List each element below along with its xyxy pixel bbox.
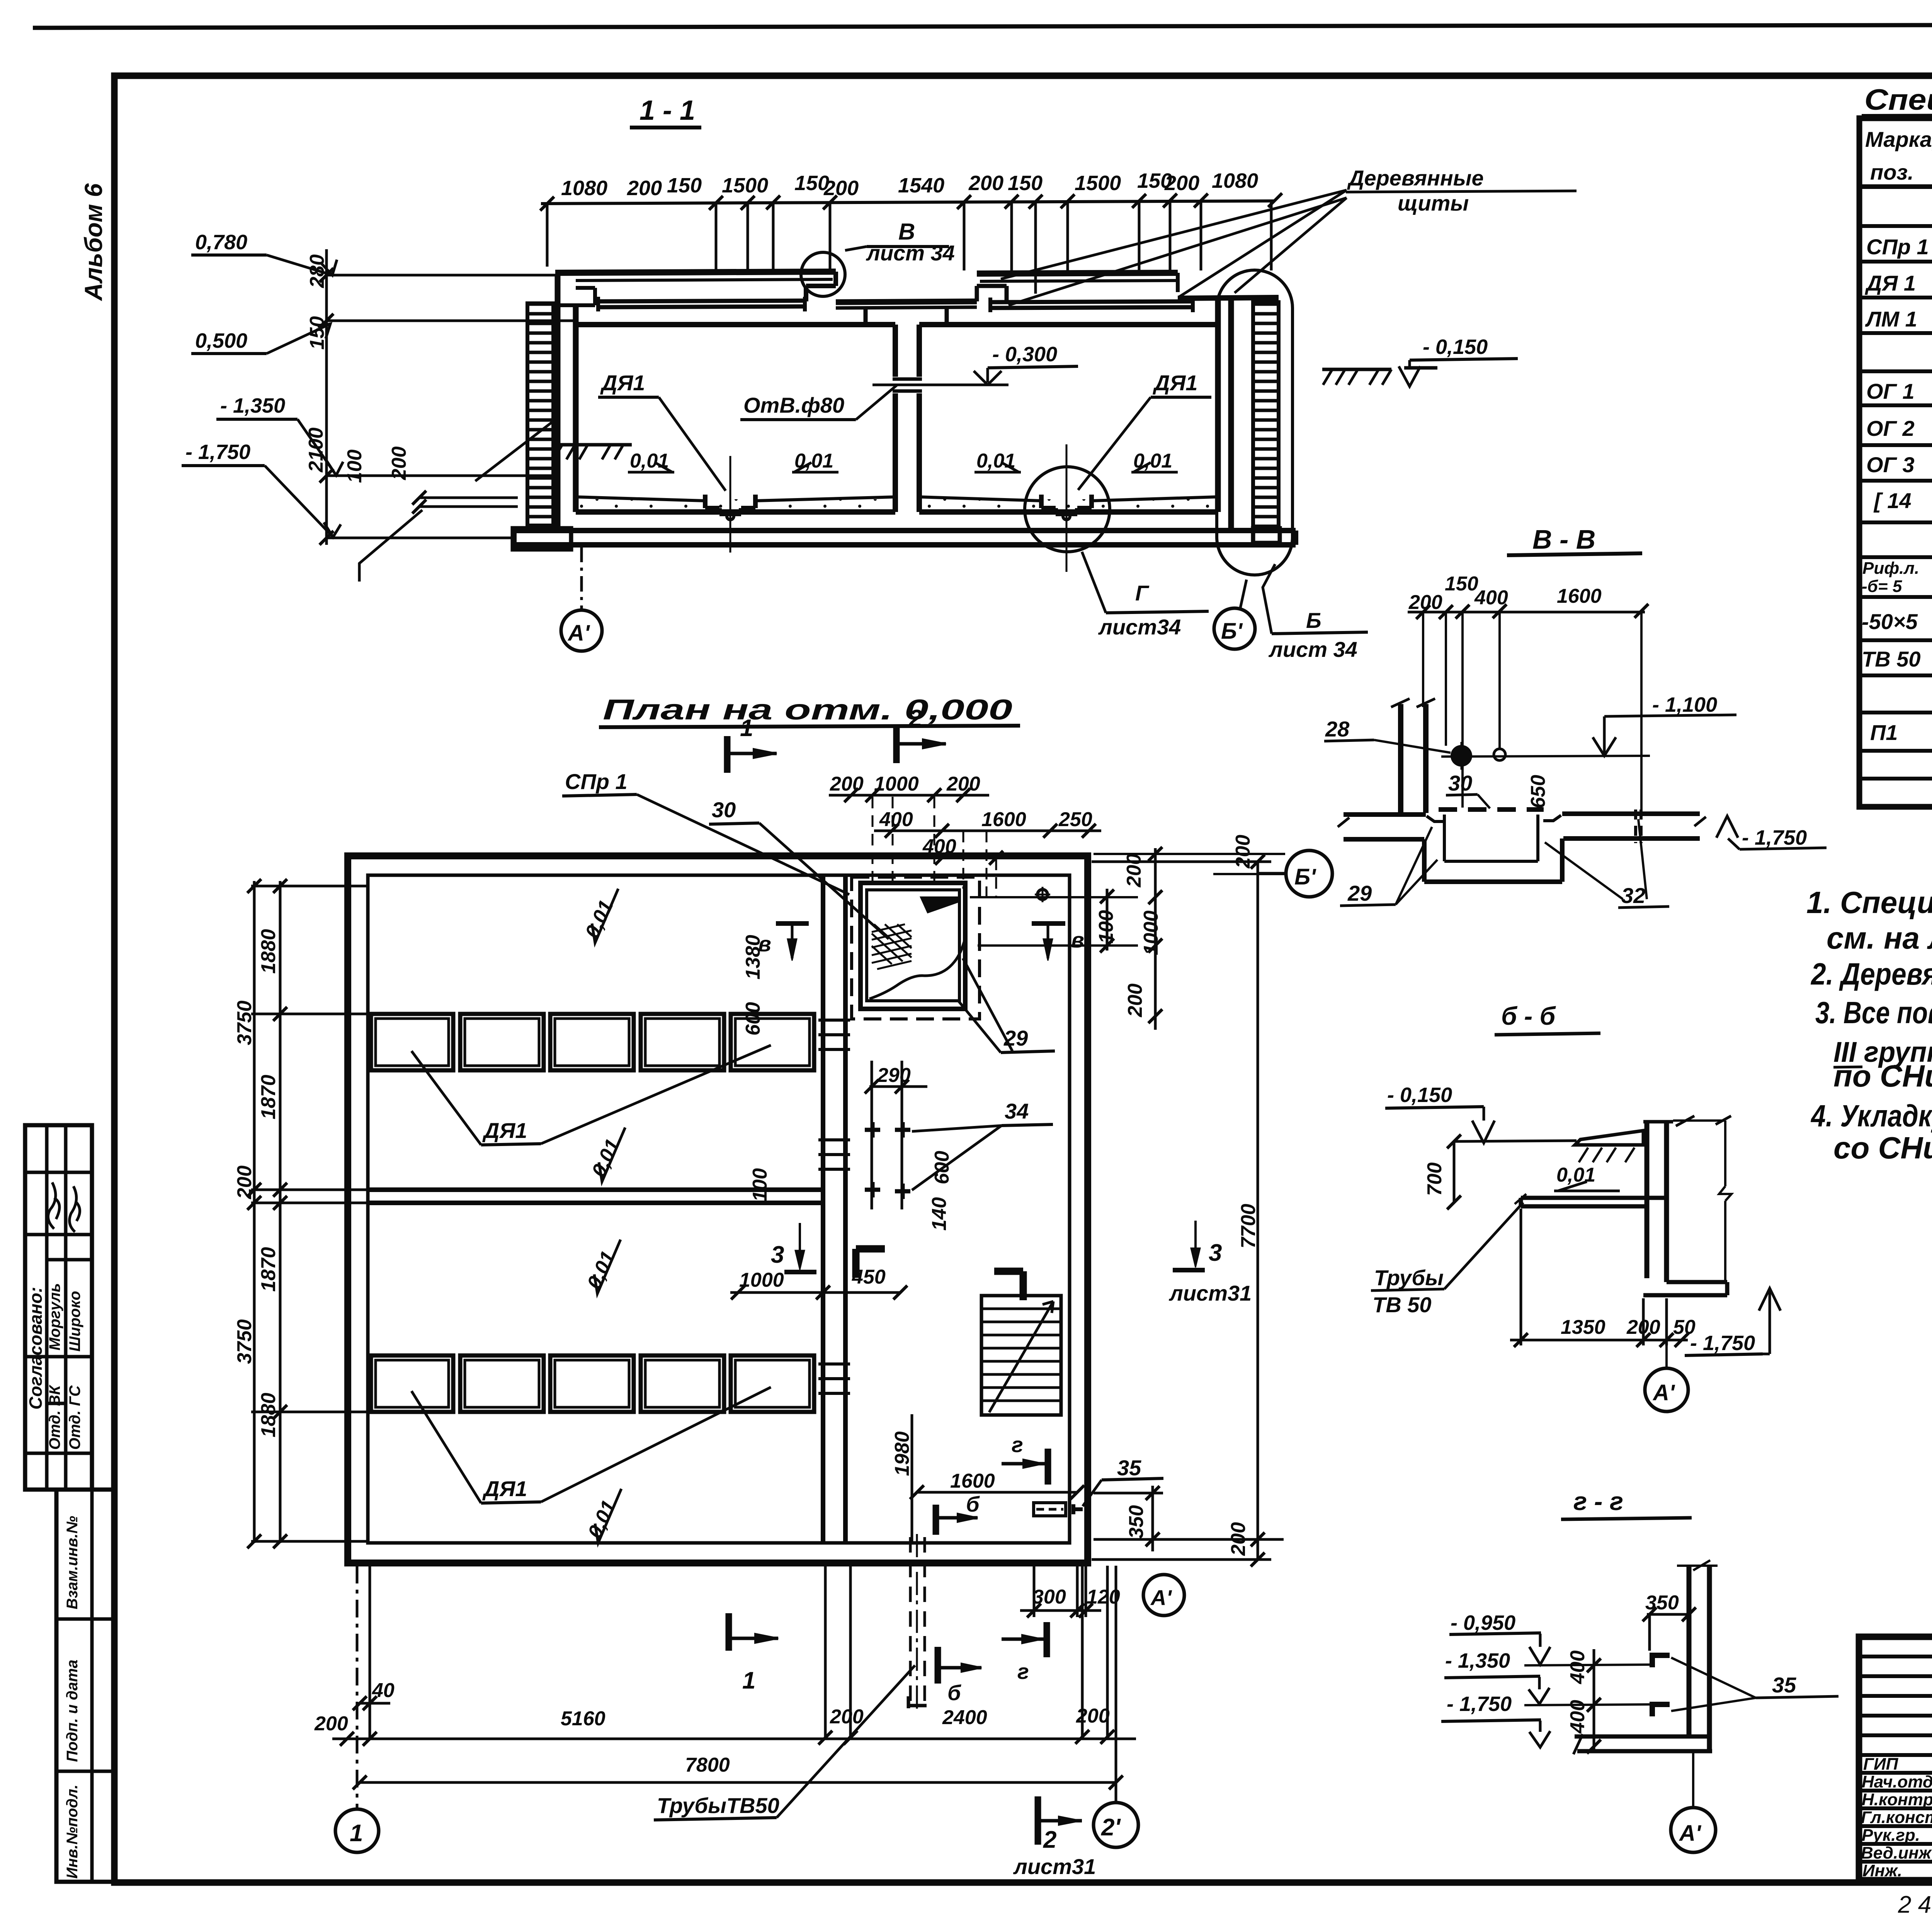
left pedestal (513, 528, 571, 549)
ground line right (1322, 368, 1437, 369)
left horizontal extension lines (328, 275, 576, 538)
svg-text:Вед.инж: Вед.инж (1861, 1844, 1932, 1862)
svg-text:600: 600 (742, 1002, 764, 1036)
embedded angle bracket upper 35 (1650, 1653, 1670, 1667)
hole otv f80 in column (893, 379, 922, 391)
svg-text:200: 200 (830, 1706, 864, 1728)
pit outer square (861, 883, 965, 1009)
slope labels 0.01 (630, 450, 1172, 472)
svg-text:А': А' (1652, 1380, 1675, 1405)
svg-text:0,780: 0,780 (195, 231, 247, 254)
svg-text:План на отм. 0,000: План на отм. 0,000 (603, 694, 1012, 726)
svg-text:1000: 1000 (874, 773, 919, 795)
svg-text:7800: 7800 (685, 1754, 730, 1776)
svg-text:-50×5: -50×5 (1862, 609, 1918, 634)
svg-text:Риф.л.: Риф.л. (1862, 559, 1919, 578)
middle column (895, 325, 919, 512)
svg-text:со СНиП 3.03.01-87.: со СНиП 3.03.01-87. (1833, 1131, 1932, 1165)
spec table header bottom line (1859, 184, 1932, 189)
middle deck side steps (866, 286, 1007, 325)
small circle 30 (1494, 749, 1505, 760)
leaders to wooden shields (1001, 190, 1347, 305)
svg-text:3750: 3750 (233, 1319, 256, 1364)
svg-text:2': 2' (1101, 1814, 1121, 1841)
svg-text:2. Деревянные щиты выполнит: 2. Деревянные щиты выполнить по месту ве… (1810, 957, 1932, 991)
svg-text:ЛМ 1: ЛМ 1 (1865, 307, 1917, 331)
svg-text:ДЯ1: ДЯ1 (482, 1476, 527, 1501)
leader to pedestal (359, 510, 422, 582)
V-V dim texts (1408, 573, 1602, 614)
svg-text:по СНиП 2.03.11-85.: по СНиП 2.03.11-85. (1833, 1059, 1932, 1093)
svg-text:Нач.отд.: Нач.отд. (1862, 1772, 1932, 1791)
svg-text:400: 400 (1566, 1700, 1589, 1734)
35 detail dashed box (1034, 1503, 1066, 1516)
svg-text:ОГ 3: ОГ 3 (1866, 452, 1915, 477)
svg-text:ДЯ 1: ДЯ 1 (1865, 271, 1916, 295)
svg-text:- 0,150: - 0,150 (1423, 335, 1488, 359)
bottom dim texts (314, 1679, 1110, 1735)
lower margin strip (56, 1490, 114, 1882)
svg-text:- 1,100: - 1,100 (1652, 693, 1717, 716)
svg-text:Деревянные: Деревянные (1347, 166, 1484, 190)
V-V pit below slab (1424, 838, 1562, 882)
svg-text:1600: 1600 (950, 1470, 995, 1492)
svg-text:Марка,: Марка, (1865, 127, 1932, 151)
svg-text:1600: 1600 (981, 808, 1026, 831)
svg-text:см. на листе 33.: см. на листе 33. (1827, 921, 1932, 955)
detail circle G around right sump (1025, 467, 1110, 552)
page top edge line (33, 24, 1932, 28)
cut flag 3 right with list31 (1173, 1268, 1205, 1272)
divider wall opening dashes (818, 1020, 850, 1393)
svg-text:лист34: лист34 (1098, 615, 1181, 639)
svg-text:- 1,750: - 1,750 (1447, 1692, 1512, 1716)
slope marks 0.01 rooms (581, 897, 624, 1542)
svg-text:1080: 1080 (1212, 169, 1258, 192)
svg-text:100: 100 (344, 449, 366, 483)
svg-text:250: 250 (1058, 808, 1092, 831)
svg-text:Согласовано:: Согласовано: (26, 1287, 46, 1410)
right ladder band (1253, 302, 1279, 528)
boxes top room (371, 1014, 814, 1070)
embedded angle bracket lower 35 (1650, 1702, 1670, 1716)
svg-text:1540: 1540 (898, 174, 944, 197)
ground line left (556, 443, 632, 447)
level line -1.350 (1524, 1665, 1650, 1665)
svg-text:А': А' (1150, 1585, 1172, 1610)
b-b wall top edge (1643, 1120, 1673, 1124)
svg-text:ГИП: ГИП (1863, 1755, 1899, 1774)
svg-text:280: 280 (306, 254, 328, 288)
svg-text:3: 3 (771, 1242, 784, 1268)
left wall (558, 275, 576, 529)
cut flag 1 bottom (726, 1613, 732, 1651)
svg-text:-б= 5: -б= 5 (1862, 577, 1902, 596)
svg-text:Гл.конст.: Гл.конст. (1861, 1808, 1932, 1827)
svg-text:1870: 1870 (257, 1247, 280, 1292)
approval signatures squiggles (48, 1182, 80, 1232)
svg-text:б: б (966, 1492, 980, 1516)
svg-text:0,01: 0,01 (976, 450, 1015, 472)
dashed formwork line (1439, 807, 1544, 812)
b-b wedge ground slab (1575, 1131, 1643, 1145)
svg-text:лист31: лист31 (1013, 1854, 1096, 1879)
svg-text:Трубы: Трубы (1374, 1265, 1444, 1290)
A' circle b-b (1645, 1368, 1688, 1412)
plan inner wall faces (368, 875, 1070, 1543)
V-V extension verticals (1423, 612, 1641, 811)
svg-text:29: 29 (1003, 1026, 1028, 1050)
svg-text:лист31: лист31 (1168, 1281, 1252, 1305)
svg-text:ТВ 50: ТВ 50 (1862, 647, 1921, 671)
svg-text:300: 300 (1032, 1586, 1066, 1608)
divider wall (823, 875, 845, 1543)
svg-text:Инв.№подл.: Инв.№подл. (64, 1784, 81, 1879)
flag 2 bottom (1035, 1796, 1041, 1845)
svg-text:- 1,750: - 1,750 (185, 440, 250, 464)
svg-text:ДЯ1: ДЯ1 (600, 371, 645, 395)
svg-text:1380: 1380 (742, 935, 764, 980)
svg-text:ОГ 1: ОГ 1 (1866, 379, 1915, 403)
svg-text:50: 50 (1673, 1316, 1696, 1338)
svg-text:Подп. и дата: Подп. и дата (64, 1660, 81, 1762)
svg-text:г: г (1017, 1659, 1029, 1684)
g-g bottom slab (1575, 1736, 1712, 1751)
svg-text:32: 32 (1621, 883, 1645, 908)
B' axis circle (1214, 608, 1255, 649)
roof step at left deck edge (806, 272, 836, 301)
svg-text:ОГ 2: ОГ 2 (1866, 416, 1915, 440)
V detail circle (801, 252, 845, 296)
V-V wall (1401, 704, 1426, 813)
chamber floor bottom lines (576, 509, 1216, 515)
crosses 34 (865, 1122, 910, 1199)
svg-text:1: 1 (350, 1820, 363, 1847)
svg-text:2: 2 (1043, 1827, 1056, 1853)
svg-text:1870: 1870 (257, 1075, 280, 1119)
svg-text:400: 400 (1474, 587, 1508, 609)
svg-text:200: 200 (1164, 172, 1199, 195)
pit seat notches (1427, 815, 1561, 821)
svg-text:- 0,300: - 0,300 (992, 343, 1057, 366)
channel element verticals (1689, 1566, 1709, 1750)
roof left chamber top slab (555, 272, 836, 273)
left ladder band (527, 303, 553, 526)
svg-text:- 1,350: - 1,350 (220, 394, 285, 417)
sand fill right chamber (920, 499, 1215, 512)
b-b footing (1643, 1282, 1727, 1295)
svg-text:200: 200 (1123, 854, 1145, 888)
svg-text:Спецификация элементов на ск: Спецификация элементов на склад соли (1864, 83, 1932, 116)
left wall top seat (558, 288, 595, 305)
svg-text:350: 350 (1125, 1505, 1148, 1539)
1980 dim line (911, 1414, 913, 1542)
right wall (1218, 298, 1231, 529)
svg-text:П1: П1 (1870, 720, 1898, 745)
svg-text:лист 34: лист 34 (866, 241, 955, 265)
joint dashes at 1600 (1636, 810, 1641, 843)
svg-text:лист 34: лист 34 (1268, 637, 1357, 662)
svg-text:200: 200 (627, 177, 662, 200)
svg-text:ТВ 50: ТВ 50 (1372, 1293, 1432, 1317)
svg-text:Б: Б (1306, 608, 1321, 633)
svg-text:0,01: 0,01 (1556, 1164, 1595, 1186)
svg-text:100: 100 (749, 1168, 771, 1202)
svg-text:35: 35 (1117, 1456, 1141, 1480)
cut flag v right of pit (1032, 921, 1065, 926)
A' axis circle (561, 610, 602, 651)
svg-text:200: 200 (823, 177, 859, 200)
svg-text:400: 400 (922, 835, 956, 858)
svg-text:7700: 7700 (1237, 1204, 1260, 1248)
pit inner square (867, 890, 959, 1001)
sand fill left chamber (577, 499, 895, 512)
middle cross wall (368, 1190, 823, 1203)
svg-text:34: 34 (1005, 1099, 1029, 1123)
chamber top ledges (576, 322, 1216, 327)
flag b upper (933, 1505, 939, 1535)
svg-text:Широко: Широко (66, 1291, 83, 1352)
plan outer wall (348, 856, 1088, 1563)
right pedestal (1253, 528, 1280, 543)
b-b mid floor slab (1521, 1198, 1667, 1206)
corner angle marks (856, 1249, 885, 1278)
svg-text:1350: 1350 (1561, 1316, 1605, 1338)
left sump DYa1 (705, 495, 755, 514)
svg-text:200: 200 (1076, 1705, 1110, 1727)
svg-text:1 - 1: 1 - 1 (639, 95, 695, 126)
svg-text:150: 150 (667, 174, 702, 197)
svg-text:2400: 2400 (942, 1706, 987, 1729)
svg-text:200: 200 (830, 773, 864, 795)
svg-text:щиты: щиты (1398, 191, 1469, 215)
rotated approval texts (26, 1283, 83, 1450)
upper approval mini-table (25, 1125, 92, 1490)
dimension ticks (540, 193, 1282, 211)
svg-text:1500: 1500 (1075, 172, 1121, 195)
400 dims g-g (1593, 1649, 1595, 1750)
svg-text:Альбом 6: Альбом 6 (80, 183, 107, 301)
svg-text:3750: 3750 (233, 1000, 256, 1045)
svg-text:Н.контр.: Н.контр. (1862, 1790, 1932, 1809)
svg-text:1080: 1080 (561, 177, 607, 200)
extension verticals from dim line (547, 201, 1271, 294)
svg-text:150: 150 (1008, 172, 1043, 195)
A' circle g-g (1671, 1808, 1716, 1852)
svg-text:200: 200 (968, 172, 1003, 195)
svg-text:1000: 1000 (739, 1269, 784, 1291)
svg-text:1880: 1880 (257, 1393, 280, 1437)
svg-text:1. Спецификацию на закладные: 1. Спецификацию на закладные изделия СПр… (1806, 885, 1932, 920)
300 120 dims (1032, 1586, 1120, 1608)
extension line at ground level (1454, 1141, 1577, 1141)
svg-text:А': А' (1679, 1821, 1702, 1846)
flag g lower (1044, 1622, 1050, 1657)
svg-text:0,01: 0,01 (630, 450, 669, 472)
svg-text:650: 650 (1527, 775, 1549, 808)
chamber floors slope lines (576, 497, 1216, 501)
svg-text:140: 140 (928, 1197, 951, 1231)
roof right chamber top slab (977, 273, 1178, 274)
svg-text:1: 1 (742, 1667, 755, 1694)
7700 dim right (1092, 862, 1284, 1560)
svg-text:350: 350 (1645, 1592, 1679, 1614)
left dim chains (254, 881, 280, 1543)
svg-text:2: 2 (908, 705, 922, 732)
svg-text:1: 1 (740, 715, 753, 742)
svg-text:ДЯ1: ДЯ1 (482, 1118, 527, 1143)
svg-text:В - В: В - В (1532, 524, 1595, 554)
capsule detail outline B (1217, 270, 1293, 575)
cut flag v left of pit (776, 921, 809, 926)
bottom slab (514, 531, 1296, 545)
ground hatches under wedge (1579, 1148, 1634, 1162)
notes text (1806, 885, 1932, 1165)
small drain circle (1037, 889, 1048, 900)
embedded part filled circle 28 (1451, 745, 1472, 767)
svg-text:ТрубыТВ50: ТрубыТВ50 (657, 1793, 779, 1818)
cut flag 2 top (893, 726, 900, 763)
pit corner flag (920, 896, 958, 913)
svg-text:2 4 2 1 8 - 0 8: 2 4 2 1 8 - 0 8 (1898, 1891, 1932, 1918)
svg-text:Отд. ВК: Отд. ВК (46, 1384, 63, 1450)
spec table row lines (1859, 226, 1932, 779)
svg-text:3. Все поверхности защитить: 3. Все поверхности защитить эпоксидным п… (1815, 995, 1932, 1030)
svg-text:- 0,150: - 0,150 (1387, 1083, 1452, 1107)
svg-text:200: 200 (233, 1165, 256, 1199)
svg-text:1500: 1500 (722, 174, 768, 197)
svg-text:400: 400 (1566, 1650, 1589, 1684)
svg-text:Отд. ГС: Отд. ГС (66, 1385, 83, 1450)
spec table outer border (1859, 118, 1932, 807)
roof left suspended shield (597, 301, 806, 301)
roof right suspended shield (989, 301, 1194, 302)
spec table rows text (1862, 197, 1932, 753)
leader from left band (475, 421, 553, 481)
svg-text:- 1,750: - 1,750 (1690, 1332, 1755, 1355)
pipes down from plan (910, 1537, 925, 1706)
svg-text:г - г: г - г (1573, 1487, 1623, 1515)
svg-text:0,500: 0,500 (195, 329, 247, 352)
svg-text:А': А' (567, 621, 590, 646)
svg-text:ОтВ.ф80: ОтВ.ф80 (743, 393, 844, 417)
svg-text:поз.: поз. (1870, 160, 1914, 184)
stair (981, 1296, 1061, 1415)
spec table title underline (1862, 114, 1932, 116)
svg-text:4. Укладку бетона вести с: 4. Укладку бетона вести с вибрированием … (1810, 1099, 1932, 1133)
svg-text:- 0,950: - 0,950 (1451, 1611, 1515, 1634)
pit grate crosshatch (872, 924, 912, 969)
svg-text:б - б: б - б (1501, 1002, 1556, 1030)
top corridor dims (830, 773, 1092, 858)
svg-text:ДЯ1: ДЯ1 (1153, 371, 1197, 395)
dims 1350 200 50 (1561, 1316, 1696, 1338)
flag g upper (1045, 1449, 1051, 1485)
rotated dims left (305, 254, 410, 483)
pit wavy line (869, 938, 965, 999)
right sump DYa1 (1041, 495, 1092, 514)
top dimension texts (561, 169, 1258, 200)
svg-text:150: 150 (1445, 573, 1478, 595)
svg-text:г: г (1012, 1432, 1023, 1457)
A' axis circle right bottom (1143, 1575, 1184, 1616)
svg-text:1600: 1600 (1557, 585, 1602, 607)
svg-text:200: 200 (1232, 835, 1254, 869)
svg-text:Б': Б' (1221, 619, 1243, 644)
bottom dim line (332, 1738, 1136, 1740)
svg-text:в: в (1071, 928, 1084, 952)
svg-text:28: 28 (1325, 717, 1350, 741)
right side rotated dims (1095, 835, 1254, 1017)
cut flag 1 top (724, 736, 731, 773)
svg-text:600: 600 (931, 1151, 953, 1184)
svg-text:700: 700 (1423, 1162, 1446, 1196)
svg-text:30: 30 (712, 798, 736, 822)
B' circle V-V (1286, 850, 1332, 897)
svg-text:СПр 1: СПр 1 (1866, 235, 1929, 259)
svg-text:Моргуль: Моргуль (46, 1283, 63, 1350)
pit dashed outline (852, 877, 980, 1019)
right dim extension lines (970, 897, 1138, 946)
spec table header texts (1865, 127, 1932, 184)
svg-text:Г: Г (1135, 581, 1150, 605)
svg-text:5160: 5160 (561, 1708, 605, 1730)
svg-text:150: 150 (306, 316, 328, 350)
right platform ledge (1178, 298, 1279, 298)
svg-text:Взам.инв.№: Взам.инв.№ (64, 1516, 81, 1609)
title block left sign-table rows (1859, 1656, 1932, 1862)
svg-text:35: 35 (1772, 1673, 1796, 1697)
svg-text:СПр 1: СПр 1 (565, 769, 628, 794)
700 dim (1453, 1141, 1456, 1202)
boxes bottom room (371, 1355, 814, 1412)
svg-text:200: 200 (1124, 983, 1146, 1017)
svg-text:1880: 1880 (257, 929, 280, 974)
svg-text:- 1,750: - 1,750 (1742, 826, 1807, 849)
top dimension line (541, 201, 1275, 204)
svg-text:- 1,350: - 1,350 (1445, 1649, 1510, 1672)
svg-text:Инж.: Инж. (1862, 1861, 1902, 1880)
middle deck (836, 301, 977, 302)
svg-text:30: 30 (1448, 771, 1472, 795)
svg-text:[ 14: [ 14 (1873, 488, 1912, 513)
svg-text:Б': Б' (1294, 864, 1316, 889)
svg-text:1980: 1980 (891, 1431, 913, 1476)
flag b lower (935, 1647, 941, 1684)
svg-text:б: б (947, 1680, 961, 1705)
V-V dim line (1408, 611, 1645, 614)
b-b wall verticals (1647, 1122, 1667, 1282)
level line -1.750 (1524, 1704, 1650, 1705)
title block staff names (1861, 1755, 1932, 1880)
V-V slab (1344, 814, 1700, 839)
svg-text:200: 200 (388, 446, 410, 480)
axis 2' circle (1094, 1803, 1138, 1847)
left dim vertical line (325, 249, 328, 545)
svg-text:200: 200 (1227, 1522, 1250, 1556)
svg-text:Рук.гр.: Рук.гр. (1862, 1826, 1920, 1845)
svg-text:200: 200 (314, 1713, 348, 1735)
svg-text:3: 3 (1209, 1240, 1222, 1266)
extension lines bottom (370, 1566, 1107, 1739)
axis 1 circle (335, 1809, 379, 1852)
svg-text:200: 200 (946, 773, 980, 795)
right boundary line with break (1719, 1121, 1731, 1282)
svg-text:29: 29 (1347, 881, 1372, 905)
B' axis circle top right (1094, 854, 1285, 874)
title block outer (1859, 1637, 1932, 1880)
